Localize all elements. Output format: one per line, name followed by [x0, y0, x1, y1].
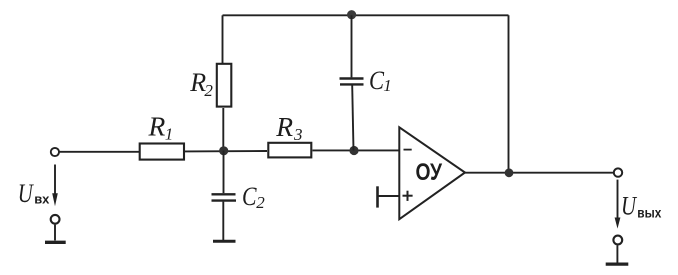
wire input to R1 [59, 151, 139, 153]
capacitor C1 [340, 15, 364, 150]
wire feedback down [508, 15, 510, 173]
wire R3 to op-amp [313, 149, 400, 151]
wire top to R2 [222, 15, 224, 64]
wire output ground stub [616, 246, 618, 264]
node B [349, 146, 358, 155]
resistor R2 [217, 64, 232, 107]
svg-text:вх: вх [34, 192, 50, 207]
wire R1 to node A [185, 150, 267, 152]
label U_vh [18, 179, 50, 208]
ground input [45, 241, 66, 244]
svg-text:R: R [148, 111, 166, 142]
wire input ground stub [54, 225, 56, 241]
wire R2 to node A [222, 108, 224, 151]
label C2 [242, 182, 265, 212]
label U_vyh [621, 192, 661, 221]
label R2 [189, 68, 213, 100]
ground C2 [213, 240, 236, 243]
label R1 [148, 111, 174, 144]
svg-text:вых: вых [637, 204, 661, 220]
svg-text:1: 1 [165, 125, 174, 144]
wire op-amp output [465, 172, 614, 174]
arrow U_vh [52, 165, 58, 207]
resistor R1 [140, 144, 184, 160]
svg-text:ОУ: ОУ [416, 159, 443, 186]
terminal output [614, 168, 622, 176]
label C1 [369, 66, 392, 95]
label R3 [275, 111, 302, 144]
node top junction [347, 10, 356, 19]
resistor R3 [268, 143, 311, 158]
wire top feedback [223, 14, 509, 16]
svg-text:2: 2 [256, 193, 265, 212]
ground output [606, 262, 629, 265]
svg-text:C: C [369, 66, 385, 95]
node C [505, 168, 514, 177]
ground bar noninverting input [376, 186, 379, 207]
svg-text:U: U [621, 192, 638, 221]
wire noninverting input [378, 195, 400, 197]
capacitor C2 [212, 151, 237, 241]
terminal input [51, 148, 59, 156]
svg-text:1: 1 [383, 76, 392, 95]
svg-text:U: U [18, 179, 35, 208]
terminal output lower [613, 236, 622, 245]
op-amp U1 [399, 127, 465, 219]
svg-text:2: 2 [204, 81, 213, 100]
node A [219, 146, 228, 155]
svg-text:C: C [242, 182, 257, 211]
terminal input lower [51, 215, 60, 224]
svg-text:3: 3 [293, 125, 303, 144]
arrow U_vyh [615, 180, 621, 229]
svg-text:R: R [275, 111, 293, 142]
